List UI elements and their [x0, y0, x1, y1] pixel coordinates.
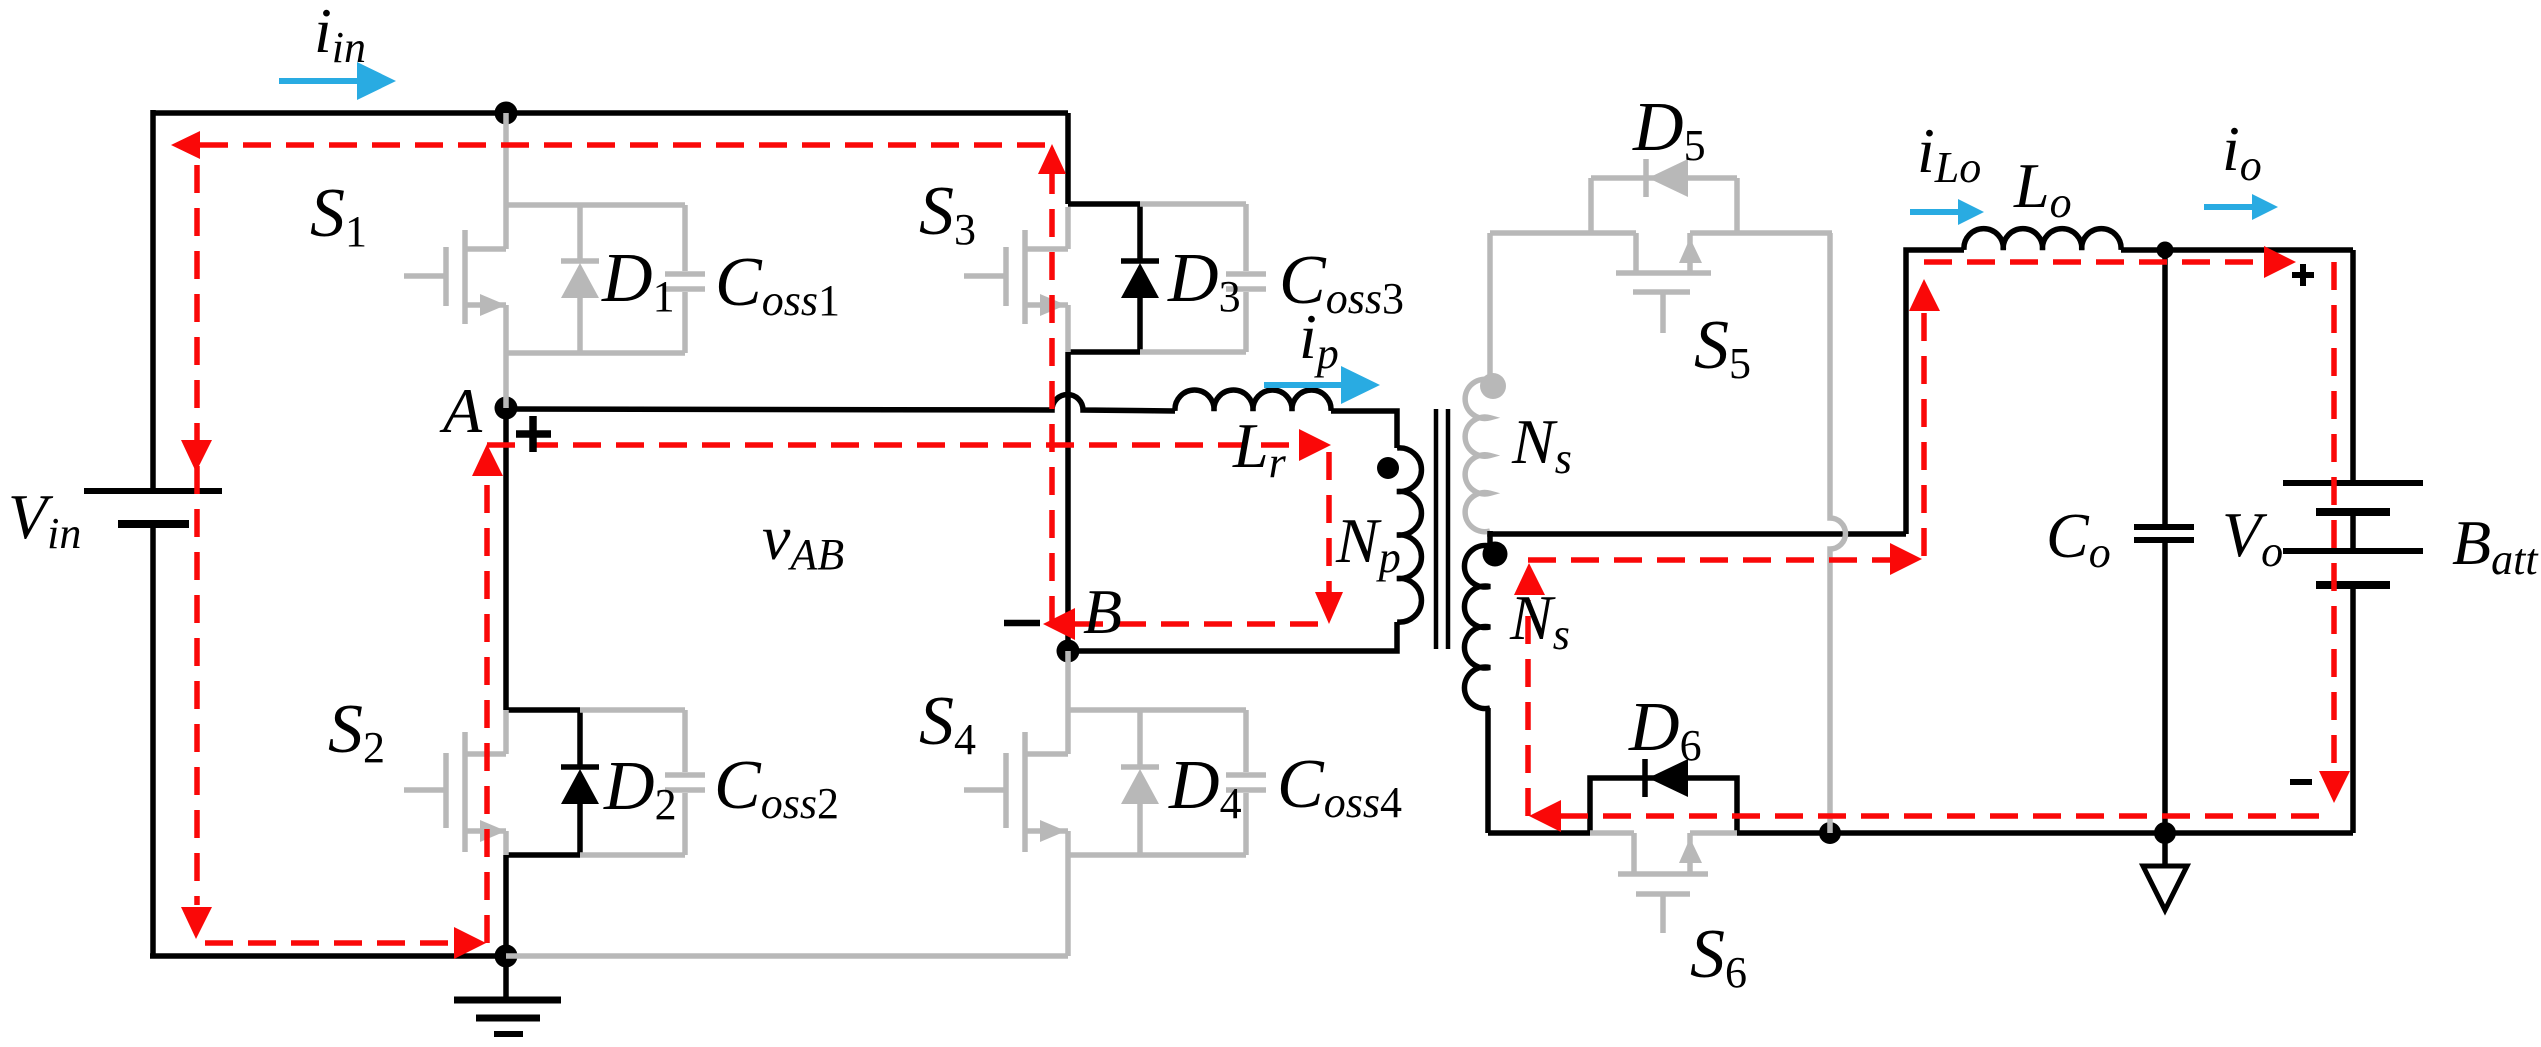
wire left rail upper	[150, 110, 156, 491]
capacitor Coss1 (gray)	[580, 205, 705, 353]
RED DASHED CURRENT PATH (secondary loop)	[1528, 262, 2334, 816]
wire S2 column lower	[503, 855, 509, 956]
wire left rail lower	[150, 524, 156, 956]
diode D1 (gray body diode)	[506, 205, 599, 353]
arrow red down (through Np)	[1315, 592, 1343, 624]
wire S2 column upper (A to D2 branch)	[503, 408, 509, 710]
diode D5 (gray)	[1591, 159, 1737, 233]
battery Vin	[84, 491, 222, 524]
arrow red left (into B)	[1043, 608, 1075, 640]
svg-text:B: B	[1083, 576, 1122, 647]
inductor Lr	[1175, 390, 1331, 411]
diode D6 (black, conducting)	[1645, 759, 1688, 797]
arrow red down (bottom left corner)	[181, 907, 212, 939]
transistor S3 (MOSFET, gray)	[964, 207, 1068, 352]
node Co bottom rail junction	[2154, 822, 2176, 844]
transformer core lines	[1436, 409, 1448, 649]
blue arrow i_p	[1264, 366, 1380, 404]
wire red battery vertical	[2331, 262, 2337, 770]
minus sign at output	[2290, 779, 2312, 785]
plus sign at node A	[516, 416, 551, 452]
blue arrow i_o	[2204, 194, 2278, 220]
battery Vo/Batt	[2283, 483, 2423, 585]
arrow red up (output left)	[1909, 279, 1940, 311]
wire D2 branch bottom	[506, 852, 580, 858]
diode D3 (black, conducting)	[1121, 204, 1159, 352]
node top junction	[495, 102, 518, 125]
transformer primary polarity dot	[1377, 457, 1399, 479]
node S5 leg to rail	[1819, 822, 1841, 844]
wire red bottom-left horizontal	[205, 940, 455, 946]
arrow red right (bottom left horizontal)	[454, 927, 486, 959]
transistor S1 (MOSFET, gray) with gray column	[404, 113, 506, 408]
arrow red down (through battery)	[2319, 771, 2350, 803]
capacitor Coss3 (gray)	[1140, 204, 1266, 352]
node ground junction	[495, 945, 518, 968]
wire red bottom return horizontal	[1560, 813, 2334, 819]
transistor S5 (MOSFET, gray, rotated) with branch	[1490, 233, 1846, 833]
wire center tap	[1490, 531, 1906, 534]
node Lo output junction	[2157, 242, 2174, 259]
wire red secondary up vertical	[1525, 600, 1531, 816]
transformer primary winding Np	[1397, 448, 1421, 622]
wire red vertical up to A	[484, 460, 490, 943]
plus sign at output	[2292, 264, 2314, 286]
wire battery bottom lead	[2350, 585, 2356, 833]
RED DASHED CURRENT PATH (primary loop)	[197, 145, 1329, 943]
wire top rail	[153, 110, 1068, 116]
diode D4 (gray body diode)	[1068, 710, 1159, 855]
wire D6 branch (step up over S6)	[1590, 778, 1737, 833]
arrow red left (bottom return)	[1529, 800, 1561, 832]
inductor Lo	[1964, 229, 2121, 250]
arrow red right (center tap)	[1890, 543, 1922, 575]
wire red output-left vertical	[1921, 310, 1927, 556]
wire red left vertical	[194, 165, 200, 905]
wire red B-up vertical	[1049, 174, 1055, 624]
transistor S2 (MOSFET, gray)	[404, 710, 506, 855]
capacitor Coss4 (gray)	[1140, 710, 1266, 855]
wire bottom rail secondary left	[1488, 830, 1590, 836]
arrow red right (output top)	[2264, 246, 2296, 278]
wire B column	[1065, 352, 1071, 651]
wire secondary bottom lead	[1485, 708, 1491, 833]
blue arrow i_in	[279, 62, 396, 100]
wire output right vertical to battery	[2350, 250, 2356, 483]
arrow red up (into A)	[472, 444, 503, 476]
wire red center-tap horizontal	[1528, 557, 1890, 563]
node A	[495, 397, 518, 420]
wire red output top horizontal	[1924, 259, 2256, 265]
ground symbol right (triangle)	[2143, 833, 2187, 910]
transistor S4 (MOSFET, gray) with gray column	[506, 651, 1068, 956]
WIRES-BLACK	[150, 110, 2353, 956]
ground symbol left	[454, 956, 561, 1034]
wire bottom rail secondary right	[1737, 830, 2353, 836]
arrow red up (secondary, through Ns)	[1514, 563, 1545, 595]
wire output left vertical	[1906, 250, 1964, 534]
wire red primary bottom horizontal	[1075, 621, 1329, 627]
wire D3 branch top	[1068, 201, 1140, 207]
wire primary bottom to B	[1068, 622, 1397, 651]
wire A to Lr with hop over S3 column	[506, 395, 1175, 412]
arrow red left (top-left corner)	[171, 131, 200, 159]
blue arrow i_Lo	[1910, 199, 1984, 225]
capacitor Co	[2134, 527, 2194, 540]
svg-text:A: A	[439, 375, 483, 446]
red arrowheads	[171, 131, 2350, 959]
wire red A-B horizontal	[487, 442, 1300, 448]
arrow red up (through D3)	[1038, 144, 1066, 174]
transformer secondary bottom winding Ns	[1464, 545, 1490, 708]
wire secondary winding joint	[1487, 531, 1493, 546]
capacitor Coss2 (gray)	[580, 710, 705, 855]
diode D2 (black, conducting)	[561, 710, 599, 855]
wire red primary down	[1326, 452, 1332, 594]
transformer secondary top polarity dot (gray)	[1480, 373, 1506, 399]
arrow red down (mid left, at Vin)	[181, 440, 212, 472]
wire bottom rail black	[150, 953, 506, 959]
transistor S6 (MOSFET, gray, rotated)	[1590, 833, 1737, 933]
wire Co lower lead	[2162, 543, 2168, 833]
wire D3 branch bottom	[1068, 349, 1140, 355]
wire Co upper lead	[2162, 250, 2168, 524]
wire red top horizontal	[200, 142, 1052, 148]
minus sign at node B	[1004, 620, 1040, 627]
wire D2 branch top	[506, 707, 580, 713]
node B	[1057, 640, 1080, 663]
wire Lr to primary top	[1331, 411, 1397, 448]
transformer secondary top winding Ns (gray, inactive)	[1465, 379, 1490, 531]
wire Lo to output node	[2121, 247, 2353, 253]
transformer secondary bottom polarity dot	[1483, 542, 1508, 567]
arrow red right (Lr path)	[1299, 429, 1331, 461]
wire S3 column top	[1065, 113, 1071, 204]
